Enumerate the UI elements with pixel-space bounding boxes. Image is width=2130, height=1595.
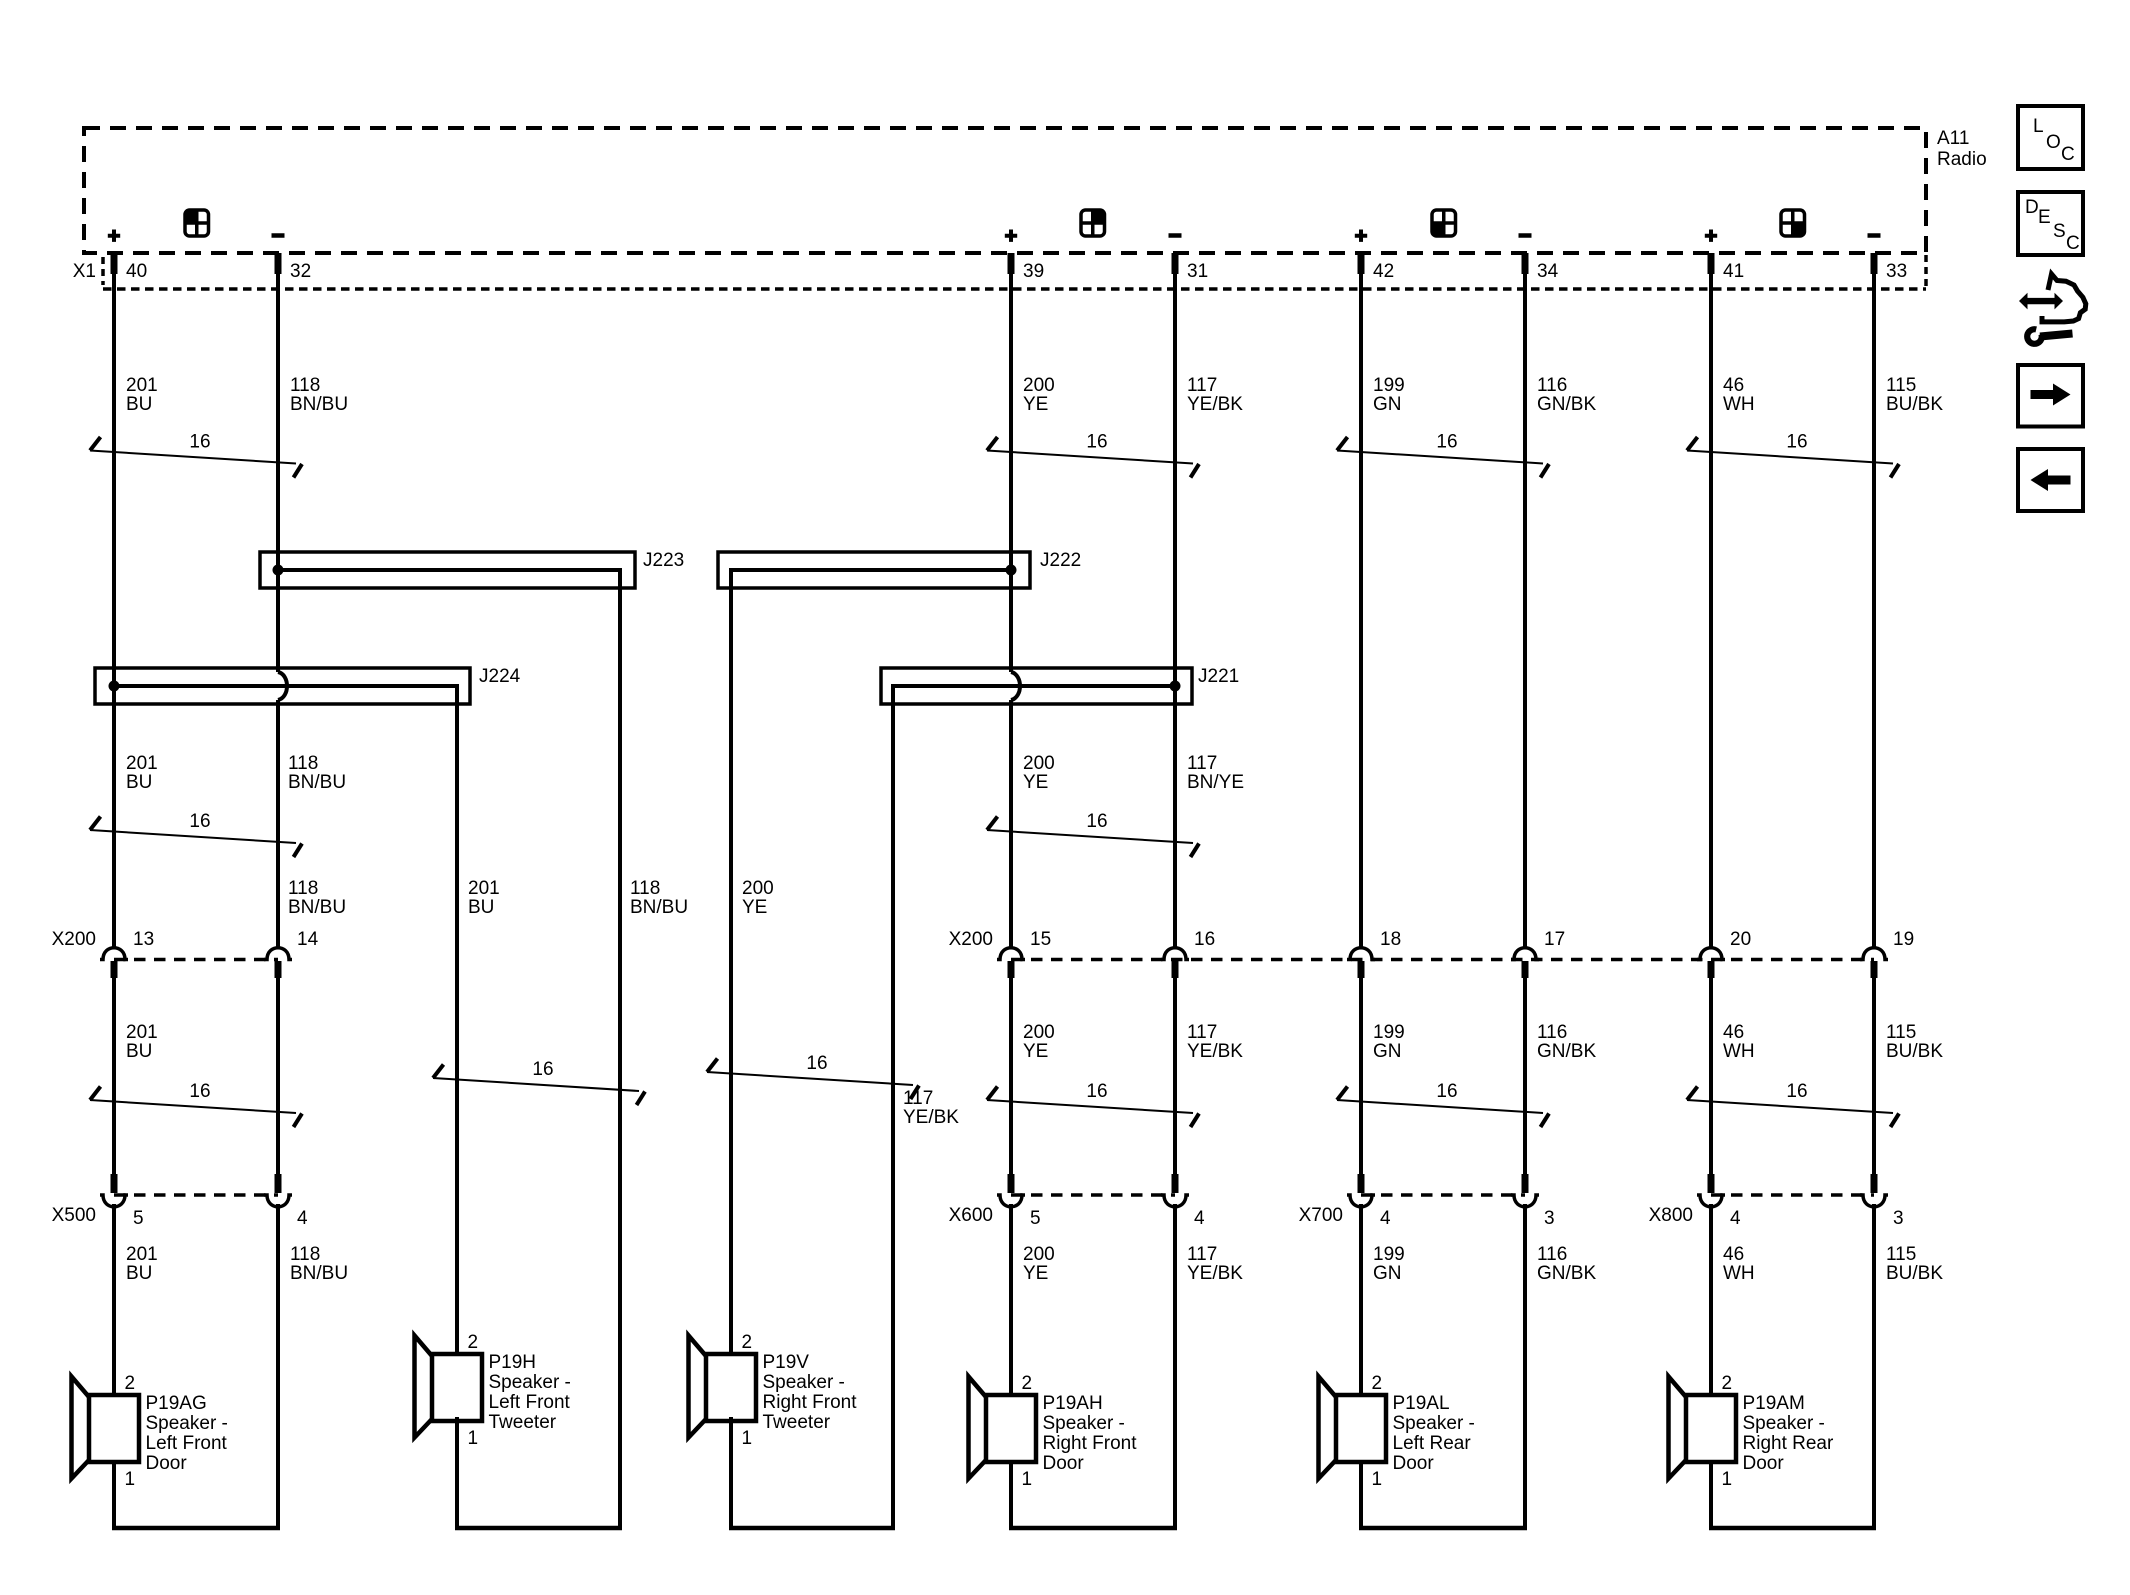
svg-text:YE: YE (1023, 1263, 1048, 1284)
wire loop bottom to P19AH pin 1 (1009, 1526, 1177, 1531)
wire 118 BN/BU (X500-4 down to loop corner) (276, 1204, 280, 1528)
svg-text:BU: BU (126, 394, 152, 415)
wire 117 YE/BK (X200-16 to X600-4) (1173, 978, 1177, 1175)
svg-text:Right Front: Right Front (763, 1392, 858, 1413)
wire gauge marker 16 (row C wires 199/116) (1337, 1081, 1549, 1127)
svg-text:118: 118 (630, 878, 660, 899)
svg-text:YE/BK: YE/BK (1187, 1263, 1243, 1284)
svg-text:YE/BK: YE/BK (1187, 394, 1243, 415)
svg-text:X200: X200 (949, 929, 993, 950)
svg-text:J223: J223 (643, 550, 684, 571)
svg-text:16: 16 (1086, 811, 1107, 832)
svg-text:BU: BU (468, 897, 494, 918)
svg-text:1: 1 (1722, 1469, 1733, 1490)
sidebar previous-page arrow button (2018, 449, 2083, 511)
svg-text:BU: BU (126, 1041, 152, 1062)
wire P19AG pin 1 to corner (112, 1460, 116, 1528)
wire 117 YE/BK (X600-4 down to loop corner) (1173, 1204, 1177, 1528)
svg-text:BU/BK: BU/BK (1886, 1041, 1943, 1062)
wire 200 YE (X200-15 to X600-5) (1009, 978, 1013, 1175)
svg-text:Speaker -: Speaker - (489, 1372, 571, 1393)
svg-text:Door: Door (1743, 1453, 1785, 1474)
wire 200 YE (X600-5 to speaker P19AH pin 2) (1009, 1204, 1013, 1397)
wire gauge marker 16 (row A wires 199/116) (1337, 432, 1549, 478)
svg-text:16: 16 (1436, 432, 1457, 453)
wire 46 WH (X800-4 to speaker P19AM pin 2) (1709, 1204, 1713, 1397)
wire hop over J221 branch (1011, 672, 1020, 700)
svg-text:WH: WH (1723, 1263, 1755, 1284)
X700 pin 4 terminal (1358, 1174, 1365, 1193)
svg-text:201: 201 (126, 1022, 158, 1043)
svg-text:199: 199 (1373, 1244, 1405, 1265)
svg-text:Radio: Radio (1937, 149, 1987, 170)
svg-text:118: 118 (288, 753, 318, 774)
svg-text:4: 4 (1380, 1208, 1391, 1229)
svg-text:117: 117 (903, 1088, 933, 1109)
svg-text:D: D (2025, 197, 2039, 218)
svg-text:YE: YE (1023, 394, 1048, 415)
polarity sign - at pin 31 (1169, 233, 1182, 238)
connector X500 (pins 5/4) (114, 1193, 278, 1197)
wire 117 YE/BK (X1-31 to X200-16) (1173, 253, 1177, 947)
X200 pin 16 terminal (1161, 948, 1189, 960)
svg-text:3: 3 (1893, 1208, 1904, 1229)
svg-text:BN/YE: BN/YE (1187, 772, 1244, 793)
svg-text:117: 117 (1187, 1022, 1217, 1043)
branch wire 117 YE/BK (J221 down to loop corner) (891, 704, 895, 1528)
svg-text:Speaker -: Speaker - (1743, 1413, 1825, 1434)
svg-text:31: 31 (1187, 261, 1208, 282)
wire gauge marker 16 (row C wires 46/115) (1687, 1081, 1899, 1127)
svg-text:Door: Door (1043, 1453, 1085, 1474)
junction J223 (260, 552, 635, 590)
svg-text:BU: BU (126, 772, 152, 793)
svg-text:18: 18 (1380, 929, 1401, 950)
svg-text:GN/BK: GN/BK (1537, 394, 1596, 415)
svg-text:20: 20 (1730, 929, 1751, 950)
svg-text:34: 34 (1537, 261, 1559, 282)
pin 32 of X1 (tick) (275, 253, 282, 274)
X600 pin 5 terminal (1008, 1174, 1015, 1193)
svg-text:BU: BU (126, 1263, 152, 1284)
svg-text:YE: YE (1023, 1041, 1048, 1062)
wire 116 GN/BK (X1-34 to X200-17) (1523, 253, 1527, 947)
svg-text:33: 33 (1886, 261, 1907, 282)
svg-text:P19H: P19H (489, 1352, 537, 1373)
wire 115 BU/BK (X1-33 to X200-19) (1872, 253, 1876, 947)
wire loop bottom to P19V pin 1 (729, 1526, 895, 1531)
wire 200 YE (hop to X200-15) (1009, 700, 1013, 947)
wire P19V pin 1 to corner (729, 1417, 733, 1528)
pin 41 of X1 (tick) (1708, 253, 1715, 274)
svg-text:Door: Door (1393, 1453, 1435, 1474)
wire 199 GN (X1-42 to X200-18) (1359, 253, 1363, 947)
svg-text:X700: X700 (1299, 1205, 1343, 1226)
wire 46 WH (X1-41 to X200-20) (1709, 253, 1713, 947)
svg-text:46: 46 (1723, 1022, 1744, 1043)
svg-text:40: 40 (126, 261, 147, 282)
svg-text:P19AM: P19AM (1743, 1393, 1805, 1414)
connector cavity icon (between pins 42/34) (1432, 210, 1456, 236)
branch wire 201 BU (J224 to speaker P19H pin 2) (455, 704, 459, 1356)
wire 201 BU (X500-5 to speaker P19AG pin 2) (112, 1204, 116, 1397)
svg-text:GN: GN (1373, 1263, 1402, 1284)
svg-text:Speaker -: Speaker - (146, 1413, 228, 1434)
svg-text:YE/BK: YE/BK (903, 1107, 959, 1128)
svg-text:199: 199 (1373, 1022, 1405, 1043)
svg-text:X1: X1 (73, 261, 96, 282)
pin 42 of X1 (tick) (1358, 253, 1365, 274)
speaker P19AH (Right Front Door) (969, 1377, 1037, 1479)
wire 115 BU/BK (X800-3 down to loop corner) (1872, 1204, 1876, 1528)
X200 pin 15 terminal (997, 948, 1025, 960)
svg-text:GN: GN (1373, 394, 1402, 415)
svg-text:P19AG: P19AG (146, 1393, 207, 1414)
svg-text:GN/BK: GN/BK (1537, 1041, 1596, 1062)
svg-text:L: L (2033, 116, 2044, 137)
svg-text:4: 4 (1194, 1208, 1205, 1229)
svg-text:1: 1 (1372, 1469, 1383, 1490)
svg-text:199: 199 (1373, 375, 1405, 396)
svg-text:16: 16 (189, 1081, 210, 1102)
X200 pin 20 terminal (1697, 948, 1725, 960)
svg-text:14: 14 (297, 929, 319, 950)
svg-text:1: 1 (1022, 1469, 1033, 1490)
junction J221 (881, 668, 1192, 706)
svg-text:117: 117 (1187, 375, 1217, 396)
wire gauge marker 16 (row B wires 201/118) (90, 811, 302, 857)
svg-text:P19V: P19V (763, 1352, 810, 1373)
svg-text:P19AL: P19AL (1393, 1393, 1450, 1414)
svg-text:C: C (2066, 233, 2080, 254)
polarity sign - at pin 34 (1519, 233, 1532, 238)
svg-text:17: 17 (1544, 929, 1565, 950)
pin 31 of X1 (tick) (1172, 253, 1179, 274)
svg-text:Tweeter: Tweeter (489, 1412, 557, 1433)
svg-text:1: 1 (468, 1428, 479, 1449)
wire loop bottom to P19AL pin 1 (1359, 1526, 1527, 1531)
svg-text:YE: YE (1023, 772, 1048, 793)
svg-text:GN: GN (1373, 1041, 1402, 1062)
connector X200 (left half, pins 13/14) (114, 958, 278, 962)
svg-text:Left Rear: Left Rear (1393, 1433, 1472, 1454)
wire 118 BN/BU (hop to X200-14) (276, 700, 280, 947)
svg-text:C: C (2061, 144, 2075, 165)
pin 33 of X1 (tick) (1871, 253, 1878, 274)
svg-text:2: 2 (1022, 1373, 1033, 1394)
polarity sign + at pin 39 (1005, 230, 1017, 242)
svg-text:4: 4 (297, 1208, 308, 1229)
svg-text:A11: A11 (1937, 128, 1969, 149)
svg-text:GN/BK: GN/BK (1537, 1263, 1596, 1284)
X200 pin 19 terminal (1860, 948, 1888, 960)
speaker P19AG (Left Front Door) (72, 1377, 140, 1479)
svg-text:5: 5 (133, 1208, 144, 1229)
svg-text:Tweeter: Tweeter (763, 1412, 831, 1433)
X600 pin 4 terminal (1172, 1174, 1179, 1193)
wire gauge marker 16 (row C wires 201/118) (90, 1081, 302, 1127)
svg-text:16: 16 (1786, 432, 1807, 453)
svg-text:Speaker -: Speaker - (1043, 1413, 1125, 1434)
svg-text:118: 118 (290, 1244, 320, 1265)
sidebar LOC button (2018, 106, 2083, 169)
svg-text:200: 200 (1023, 1244, 1055, 1265)
svg-text:201: 201 (126, 1244, 158, 1265)
svg-text:16: 16 (189, 811, 210, 832)
sidebar repair/diagnostic icon (double arrow, outline, wrench) (2019, 274, 2086, 344)
svg-text:S: S (2053, 221, 2066, 242)
svg-text:2: 2 (468, 1332, 479, 1353)
pin 40 of X1 (tick) (111, 253, 118, 274)
svg-text:Door: Door (146, 1453, 188, 1474)
X200 pin 14 terminal (264, 948, 292, 960)
svg-text:46: 46 (1723, 375, 1744, 396)
svg-text:201: 201 (126, 375, 158, 396)
wire 201 BU (X1-40 to X200-13) (112, 253, 116, 947)
connector X1 strip (dotted) (103, 287, 1926, 291)
svg-text:15: 15 (1030, 929, 1051, 950)
svg-text:BU/BK: BU/BK (1886, 1263, 1943, 1284)
svg-text:115: 115 (1886, 1244, 1916, 1265)
svg-text:Right Rear: Right Rear (1743, 1433, 1834, 1454)
svg-text:BN/BU: BN/BU (630, 897, 688, 918)
speaker P19AL (Left Rear Door) (1319, 1377, 1387, 1479)
polarity sign + at pin 42 (1355, 230, 1367, 242)
svg-text:1: 1 (125, 1469, 136, 1490)
svg-text:16: 16 (1436, 1081, 1457, 1102)
speaker P19H (Left Front Tweeter) (415, 1336, 483, 1438)
svg-text:39: 39 (1023, 261, 1044, 282)
wire 116 GN/BK (X200-17 to X700-3) (1523, 978, 1527, 1175)
svg-text:16: 16 (1086, 1081, 1107, 1102)
svg-text:1: 1 (742, 1428, 753, 1449)
svg-text:X600: X600 (949, 1205, 993, 1226)
svg-text:YE: YE (742, 897, 767, 918)
svg-text:16: 16 (189, 432, 210, 453)
wire 116 GN/BK (X700-3 down to loop corner) (1523, 1204, 1527, 1528)
svg-text:200: 200 (1023, 753, 1055, 774)
wire gauge marker 16 (row A wires 201/118) (90, 432, 302, 478)
X500 pin 5 terminal (111, 1174, 118, 1193)
svg-text:BN/BU: BN/BU (288, 897, 346, 918)
speaker P19AM (Right Rear Door) (1669, 1377, 1737, 1479)
svg-text:16: 16 (1194, 929, 1215, 950)
svg-text:201: 201 (126, 753, 158, 774)
junction J224 (95, 668, 470, 706)
svg-text:116: 116 (1537, 375, 1567, 396)
svg-text:4: 4 (1730, 1208, 1741, 1229)
svg-text:J221: J221 (1198, 666, 1239, 687)
svg-text:118: 118 (290, 375, 320, 396)
junction J222 (718, 552, 1030, 590)
wire loop bottom to P19H pin 1 (455, 1526, 622, 1531)
wire gauge marker 16 (row A wires 46/115) (1687, 432, 1899, 478)
svg-text:YE/BK: YE/BK (1187, 1041, 1243, 1062)
svg-text:2: 2 (742, 1332, 753, 1353)
wire P19H pin 1 to corner (455, 1417, 459, 1528)
polarity sign + at pin 40 (108, 230, 120, 242)
X200 pin 13 terminal (100, 948, 128, 960)
connector X800 (pins 4/3) (1711, 1193, 1874, 1197)
svg-text:X800: X800 (1649, 1205, 1693, 1226)
X500 pin 4 terminal (275, 1174, 282, 1193)
svg-text:Speaker -: Speaker - (763, 1372, 845, 1393)
wire 115 BU/BK (X200-19 to X800-3) (1872, 978, 1876, 1175)
svg-text:Right Front: Right Front (1043, 1433, 1138, 1454)
svg-text:19: 19 (1893, 929, 1914, 950)
branch wire 200 YE (J222 to speaker P19V pin 2) (729, 588, 733, 1356)
svg-text:16: 16 (1086, 432, 1107, 453)
connector cavity icon (between pins 39/31) (1081, 210, 1105, 236)
X700 pin 3 terminal (1522, 1174, 1529, 1193)
svg-text:116: 116 (1537, 1022, 1567, 1043)
svg-text:Speaker -: Speaker - (1393, 1413, 1475, 1434)
wire gauge marker 16 (row A wires 200/117) (987, 432, 1199, 478)
wire 46 WH (X200-20 to X800-4) (1709, 978, 1713, 1175)
svg-text:BN/BU: BN/BU (290, 1263, 348, 1284)
svg-text:BU/BK: BU/BK (1886, 394, 1943, 415)
svg-text:117: 117 (1187, 753, 1217, 774)
svg-text:117: 117 (1187, 1244, 1217, 1265)
svg-text:200: 200 (742, 878, 774, 899)
svg-text:41: 41 (1723, 261, 1744, 282)
svg-text:2: 2 (125, 1373, 136, 1394)
connector X600 (pins 5/4) (1011, 1193, 1175, 1197)
X200 pin 18 terminal (1347, 948, 1375, 960)
wire loop bottom to P19AG pin 1 (112, 1526, 280, 1531)
polarity sign - at pin 33 (1868, 233, 1881, 238)
wire P19AM pin 1 to corner (1709, 1460, 1713, 1528)
svg-text:2: 2 (1722, 1373, 1733, 1394)
svg-text:P19AH: P19AH (1043, 1393, 1103, 1414)
svg-text:42: 42 (1373, 261, 1394, 282)
wire gauge marker 16 (row B wires 200/117) (987, 811, 1199, 857)
svg-text:200: 200 (1023, 1022, 1055, 1043)
connector X200 (right half, pins 15-19) (1011, 958, 1874, 962)
wire 200 YE (X1-39 through J222 to hop at J221) (1009, 253, 1013, 672)
pin 34 of X1 (tick) (1522, 253, 1529, 274)
svg-text:200: 200 (1023, 375, 1055, 396)
svg-text:5: 5 (1030, 1208, 1041, 1229)
svg-text:WH: WH (1723, 1041, 1755, 1062)
wire 199 GN (X200-18 to X700-4) (1359, 978, 1363, 1175)
connector cavity icon (between pins 41/33) (1781, 210, 1805, 236)
svg-text:32: 32 (290, 261, 311, 282)
svg-text:118: 118 (288, 878, 318, 899)
X800 pin 3 terminal (1871, 1174, 1878, 1193)
wire gauge marker 16 (row C wires 200/117) (987, 1081, 1199, 1127)
pin 39 of X1 (tick) (1008, 253, 1015, 274)
svg-text:13: 13 (133, 929, 154, 950)
sidebar next-page arrow button (2018, 365, 2083, 427)
svg-text:Left Front: Left Front (489, 1392, 571, 1413)
svg-text:2: 2 (1372, 1373, 1383, 1394)
polarity sign + at pin 41 (1705, 230, 1717, 242)
component A11 Radio (dashed box) (84, 128, 1926, 253)
svg-text:115: 115 (1886, 375, 1916, 396)
svg-text:116: 116 (1537, 1244, 1567, 1265)
svg-text:BN/BU: BN/BU (290, 394, 348, 415)
wire gauge marker 16 (tweeter branch 201/118) (433, 1059, 645, 1105)
wire 201 BU (X200-13 to X500-5) (112, 978, 116, 1175)
svg-text:201: 201 (468, 878, 500, 899)
wire hop over J224 branch (278, 672, 287, 700)
X200 pin 17 terminal (1511, 948, 1539, 960)
sidebar DESC button (2018, 192, 2083, 255)
wire 118 BN/BU (X1-32 through J223 to hop at J224) (276, 253, 280, 672)
X800 pin 4 terminal (1708, 1174, 1715, 1193)
speaker P19V (Right Front Tweeter) (689, 1336, 757, 1438)
svg-text:3: 3 (1544, 1208, 1555, 1229)
svg-text:E: E (2038, 207, 2051, 228)
svg-text:46: 46 (1723, 1244, 1744, 1265)
svg-text:Left Front: Left Front (146, 1433, 228, 1454)
connector X700 (pins 4/3) (1361, 1193, 1525, 1197)
wire loop bottom to P19AM pin 1 (1709, 1526, 1876, 1531)
svg-text:WH: WH (1723, 394, 1755, 415)
svg-text:J222: J222 (1040, 550, 1081, 571)
wire gauge marker 16 (tweeter branch 200/117) (707, 1053, 919, 1099)
svg-text:X200: X200 (52, 929, 96, 950)
svg-text:16: 16 (1786, 1081, 1807, 1102)
svg-text:BN/BU: BN/BU (288, 772, 346, 793)
svg-text:16: 16 (532, 1059, 553, 1080)
svg-text:16: 16 (806, 1053, 827, 1074)
svg-text:X500: X500 (52, 1205, 96, 1226)
svg-text:115: 115 (1886, 1022, 1916, 1043)
connector cavity icon (between pins 40/32) (185, 210, 209, 236)
svg-text:J224: J224 (479, 666, 521, 687)
polarity sign - at pin 32 (272, 233, 285, 238)
branch wire 118 BN/BU (J223 down to loop corner) (618, 588, 622, 1528)
wire 199 GN (X700-4 to speaker P19AL pin 2) (1359, 1204, 1363, 1397)
wire P19AL pin 1 to corner (1359, 1460, 1363, 1528)
svg-text:O: O (2046, 132, 2061, 153)
wire 118 BN/BU (X200-14 to X500-4) (276, 978, 280, 1175)
wire P19AH pin 1 to corner (1009, 1460, 1013, 1528)
